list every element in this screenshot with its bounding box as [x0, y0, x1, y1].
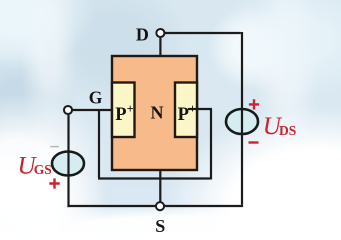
P+ region left	[112, 83, 135, 138]
svg-text:D: D	[136, 25, 149, 45]
terminal S	[156, 202, 164, 210]
polarity + of U_DS	[249, 99, 259, 109]
wire: D stub	[159, 38, 161, 56]
polarity - of U_GS	[50, 146, 59, 148]
svg-text:G: G	[89, 88, 103, 108]
polarity + of U_GS	[49, 178, 59, 188]
wire: gate loop to right P+	[98, 109, 212, 180]
wire: left vertical through U_GS up to G	[67, 115, 69, 207]
wire: bottom right segment	[165, 205, 243, 207]
voltage source U_GS	[52, 152, 84, 176]
svg-text:GS: GS	[34, 162, 52, 177]
svg-text:S: S	[155, 216, 165, 232]
wire: bottom left segment	[67, 205, 155, 207]
wire: right vertical through U_DS to bottom corner	[241, 109, 243, 205]
wire: top from D to U_DS	[165, 32, 242, 109]
wire: G to gate region	[72, 109, 112, 111]
wire: gate stub inside right P+	[188, 108, 199, 110]
voltage source U_DS	[226, 109, 258, 134]
terminal G	[64, 106, 72, 114]
P+ region right	[175, 83, 197, 138]
wire: S stub	[159, 170, 161, 202]
svg-text:N: N	[151, 103, 164, 123]
polarity - of U_DS	[249, 141, 259, 143]
terminal D	[156, 29, 164, 37]
svg-text:DS: DS	[279, 123, 296, 138]
N-region block	[112, 56, 197, 170]
